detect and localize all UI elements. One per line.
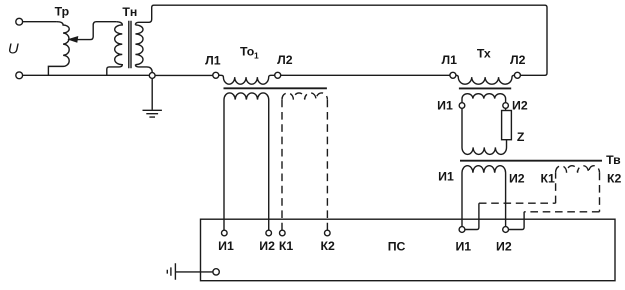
svg-text:U: U: [8, 41, 19, 58]
terminal И1 Tv on PS: [459, 227, 465, 233]
svg-text:Л2: Л2: [510, 53, 526, 67]
wire bottom bus input to node: [23, 74, 150, 76]
node grounded neutral: [149, 73, 155, 79]
Tv core: [460, 160, 602, 162]
wire node to ground: [151, 78, 153, 109]
svg-text:И1: И1: [218, 239, 234, 253]
wire И1 Tx down, Tv primary winding, up to Z: [462, 108, 507, 154]
svg-text:И2: И2: [509, 172, 525, 186]
svg-text:К2: К2: [321, 239, 336, 253]
transformer Tn secondary winding: [135, 25, 143, 65]
To1 secondary winding И1-И2 with legs: [224, 93, 269, 230]
hook И2 Tv to К2 rail: [509, 212, 525, 230]
wire ground terminal: [176, 271, 213, 273]
svg-text:Тх: Тх: [477, 46, 491, 60]
terminal И1 PS: [222, 230, 228, 236]
svg-text:К1: К1: [279, 239, 294, 253]
ground symbol under node: [143, 110, 162, 117]
terminal ground PS: [213, 269, 219, 275]
To1 compensation winding К1-К2 dashed with legs: [282, 100, 327, 231]
box ПС: [201, 219, 616, 281]
wire top input to Tp: [23, 21, 57, 23]
terminal К1 PS: [280, 230, 286, 236]
svg-text:Л1: Л1: [205, 54, 221, 68]
terminal И2 PS: [266, 230, 272, 236]
svg-text:Л1: Л1: [441, 53, 457, 67]
terminal К2 PS: [325, 230, 331, 236]
svg-text:И2: И2: [259, 239, 275, 253]
svg-text:Л2: Л2: [277, 53, 293, 67]
ground symbol PS: [167, 263, 175, 280]
terminal Л1 Tx: [450, 72, 456, 78]
terminal И2 Tv on PS: [503, 227, 509, 233]
svg-text:И1: И1: [438, 170, 454, 184]
Tp wiper arrowhead: [67, 36, 78, 43]
impedance Z: [502, 111, 512, 140]
svg-text:ПС: ПС: [388, 239, 406, 253]
svg-text:И2: И2: [512, 98, 528, 112]
svg-text:То: То: [240, 44, 255, 58]
terminal input top: [16, 18, 23, 25]
svg-text:Тн: Тн: [122, 5, 137, 19]
svg-text:Тр: Тр: [55, 5, 70, 19]
wire main bus Л2 To1 to Л1 Tx: [281, 74, 450, 76]
wire И2 Tx to Z: [505, 108, 507, 110]
svg-text:И2: И2: [496, 239, 512, 253]
svg-text:1: 1: [254, 51, 259, 61]
wire wiper to Tn left winding: [75, 22, 117, 40]
wire node to Л1 of To1: [155, 74, 213, 76]
hook И1 Tv to К1 rail: [465, 203, 479, 229]
svg-text:К2: К2: [607, 172, 622, 186]
terminal Л2 Tx: [514, 72, 520, 78]
autotransformer Tp winding: [48, 22, 69, 76]
terminal Л1 To1: [213, 72, 219, 78]
wire Tn secondary top to top bus and down to Л2 of Tx: [135, 5, 547, 75]
terminal Л2 To1: [275, 72, 281, 78]
svg-text:И1: И1: [455, 239, 471, 253]
svg-text:К1: К1: [541, 172, 556, 186]
Tx primary winding: [456, 75, 515, 84]
Tx secondary winding: [462, 94, 506, 103]
terminal И2 Tx: [503, 103, 509, 109]
transformer Tn primary winding: [107, 22, 123, 76]
terminal input bottom: [16, 72, 23, 79]
To1 core: [224, 87, 327, 89]
svg-text:И1: И1: [437, 98, 453, 112]
wire Tn secondary bottom to node: [135, 65, 152, 73]
svg-text:Тв: Тв: [606, 153, 621, 167]
Tn core: [129, 21, 131, 69]
svg-text:Z: Z: [517, 130, 525, 144]
Tx core: [459, 87, 511, 89]
Tv compensation winding К1-К2 dashed with dashed rails: [479, 173, 600, 212]
To1 primary winding: [219, 75, 275, 84]
Tv secondary winding И1-И2 with legs: [462, 166, 506, 227]
terminal И1 Tx: [459, 103, 465, 109]
